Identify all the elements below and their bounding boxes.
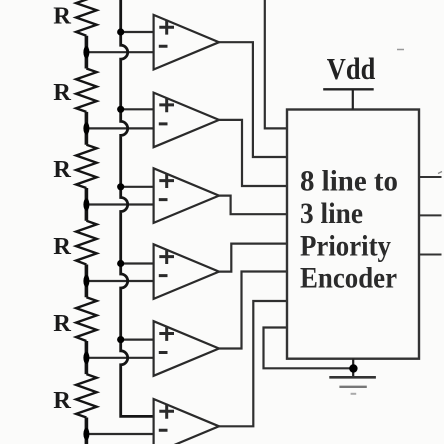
wire encoder input 0 to ground node	[264, 328, 354, 369]
node Vin junction dot 2	[117, 106, 124, 113]
wire U4 output to encoder input 3	[219, 244, 287, 272]
svg-text:R: R	[53, 2, 71, 29]
wire U2 output to encoder input 5	[219, 120, 287, 186]
U1 plus and minus input markers	[159, 20, 174, 46]
svg-text:R: R	[53, 79, 71, 106]
op-amp U5 triangle body	[154, 321, 219, 376]
node Vin junction dot 4	[117, 260, 124, 267]
resistor ladder vertical wire	[85, 36, 89, 444]
wire tap4 to U4 minus	[86, 280, 153, 282]
node tap4 junction dot	[83, 275, 89, 287]
op-amp U1	[154, 15, 219, 70]
wire encoder ground stem	[352, 359, 354, 378]
ground symbol bar 1	[329, 376, 376, 379]
node tap6 junction dot	[83, 428, 89, 440]
node tap3 junction dot	[83, 198, 89, 210]
svg-text:R: R	[53, 233, 71, 260]
op-amp U6 triangle body	[154, 399, 219, 444]
wire tap2 to U2 minus	[86, 127, 153, 129]
svg-text:Priority: Priority	[300, 229, 391, 262]
op-amp U2 triangle body	[154, 93, 219, 148]
wire Vdd stem to encoder	[352, 89, 354, 109]
node tap1 junction dot	[83, 46, 89, 58]
op-amp U3 triangle body	[154, 168, 219, 223]
wire Vin to U2 plus	[121, 108, 154, 110]
resistor R4	[76, 221, 97, 265]
wire Vin to U4 plus	[121, 262, 154, 264]
svg-text:3 line: 3 line	[300, 197, 363, 230]
ground symbol bar 3	[351, 393, 357, 395]
svg-text:R: R	[53, 310, 71, 337]
svg-text:Vdd: Vdd	[327, 51, 376, 86]
svg-text:R: R	[53, 156, 71, 183]
node Vin junction dot 3	[117, 183, 124, 190]
node Vin junction dot 1	[117, 28, 124, 35]
svg-text:Encoder: Encoder	[300, 262, 397, 295]
wire tap3 to U3 minus	[86, 203, 153, 205]
wire Vin to U3 plus	[121, 186, 154, 188]
op-amp U2	[154, 93, 219, 148]
node tap2 junction dot	[83, 122, 89, 134]
wire encoder output bit 0	[419, 254, 442, 256]
wire Vin vertical with hops over tap wires	[121, 0, 154, 416]
resistor R1 (partial, top)	[76, 0, 97, 36]
resistor R5	[76, 297, 97, 341]
wire Vin to U5 plus	[121, 339, 154, 341]
wire tap5 to U5 minus	[86, 357, 153, 359]
U3 plus and minus input markers	[159, 173, 174, 199]
node tap5 junction dot	[83, 352, 89, 364]
op-amp U3	[154, 168, 219, 223]
wire encoder output bit 1	[419, 214, 442, 216]
Vin + input stub wires	[121, 32, 154, 340]
resistor R3	[76, 145, 97, 188]
op-amp U6	[154, 399, 219, 444]
op-amp U5	[154, 321, 219, 376]
encoder box U7	[287, 110, 419, 359]
U2 plus and minus input markers	[159, 98, 174, 124]
node ground junction dot	[349, 364, 357, 372]
encoder label text	[300, 165, 398, 295]
artifact tick at output end	[438, 172, 442, 174]
artifact dash top right	[397, 49, 404, 51]
output wires	[219, 0, 353, 426]
op-amp U4 triangle body	[154, 244, 219, 299]
power symbol Vdd bar	[323, 88, 374, 90]
wire U6 output to encoder input 1	[219, 301, 287, 426]
wire tap1 to U1 minus	[86, 51, 153, 53]
op-amp U4	[154, 244, 219, 299]
wire U3 output to encoder input 4	[219, 196, 287, 215]
op-amp U1 triangle body	[154, 15, 219, 70]
tap wires (ladder to comparator - inputs)	[86, 52, 153, 434]
resistor R6	[76, 374, 97, 417]
wire U1 output to encoder input 6	[219, 42, 287, 157]
ground symbol bar 2	[339, 386, 366, 388]
wire tap6 to U6 minus	[86, 433, 153, 435]
wire encoder output bit 2	[419, 176, 442, 178]
node Vin junction dot 5	[117, 336, 124, 343]
U6 plus and minus input markers	[159, 404, 174, 430]
wire comparator above (offscreen) to encoder input 7	[265, 0, 287, 128]
svg-text:R: R	[53, 387, 71, 414]
resistor R2	[76, 69, 97, 112]
wire Vin to U1 plus	[121, 31, 154, 33]
U4 plus and minus input markers	[159, 249, 174, 275]
svg-text:8 line to: 8 line to	[300, 165, 398, 198]
U5 plus and minus input markers	[159, 326, 174, 352]
wire U5 output to encoder input 2	[219, 272, 287, 349]
